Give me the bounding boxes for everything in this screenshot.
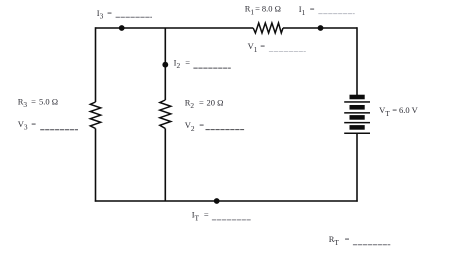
svg-text:=: =: [199, 120, 204, 130]
blank line for RT: [353, 244, 390, 246]
svg-text:=: =: [31, 119, 36, 129]
svg-text:8.0 Ω: 8.0 Ω: [262, 4, 281, 14]
blank line for V1: [269, 51, 306, 53]
svg-text:=: =: [392, 105, 397, 115]
svg-text:=: =: [345, 234, 350, 244]
svg-text:=: =: [31, 96, 36, 106]
blank line for I1: [318, 13, 354, 15]
wire: bottom rail: [95, 200, 358, 202]
svg-text:=: =: [260, 41, 265, 51]
wire: left branch lower: [95, 129, 97, 202]
wire: top rail right segment (R1 to top-right corner): [283, 27, 357, 29]
svg-text:=: =: [199, 98, 204, 108]
blank line for I3: [116, 16, 152, 18]
resistor R2 (vertical zigzag, middle branch): [160, 100, 171, 129]
svg-text:6.0 V: 6.0 V: [399, 105, 419, 115]
node IT junction dot (bottom rail): [214, 198, 220, 204]
wire: right branch upper (to battery): [356, 27, 358, 95]
resistor R3 (vertical zigzag, left branch): [90, 102, 100, 129]
wire: top rail left segment (top-left corner to R1): [96, 27, 254, 29]
svg-text:=: =: [204, 210, 209, 220]
svg-text:=: =: [107, 8, 112, 18]
blank line for IT: [212, 219, 251, 221]
wire: middle branch upper: [164, 28, 166, 100]
svg-text:5.0 Ω: 5.0 Ω: [39, 96, 58, 106]
wire: left branch upper: [95, 27, 97, 102]
blank line for V3: [40, 129, 78, 131]
node I3 junction dot (top rail): [119, 25, 125, 31]
wire: middle branch lower: [164, 129, 166, 202]
svg-text:=: =: [255, 4, 260, 14]
svg-text:=: =: [310, 4, 315, 14]
wire: right branch lower (battery to bottom): [356, 133, 358, 202]
node I2 junction dot (middle branch): [162, 62, 168, 68]
svg-text:20 Ω: 20 Ω: [207, 98, 224, 108]
svg-text:=: =: [185, 57, 190, 67]
blank line for V2: [206, 129, 245, 131]
node I1 junction dot (top rail right): [318, 25, 324, 31]
blank line for I2: [193, 67, 230, 69]
battery VT (4 cells): [344, 95, 370, 134]
resistor R1 (horizontal zigzag, top rail): [253, 23, 283, 33]
